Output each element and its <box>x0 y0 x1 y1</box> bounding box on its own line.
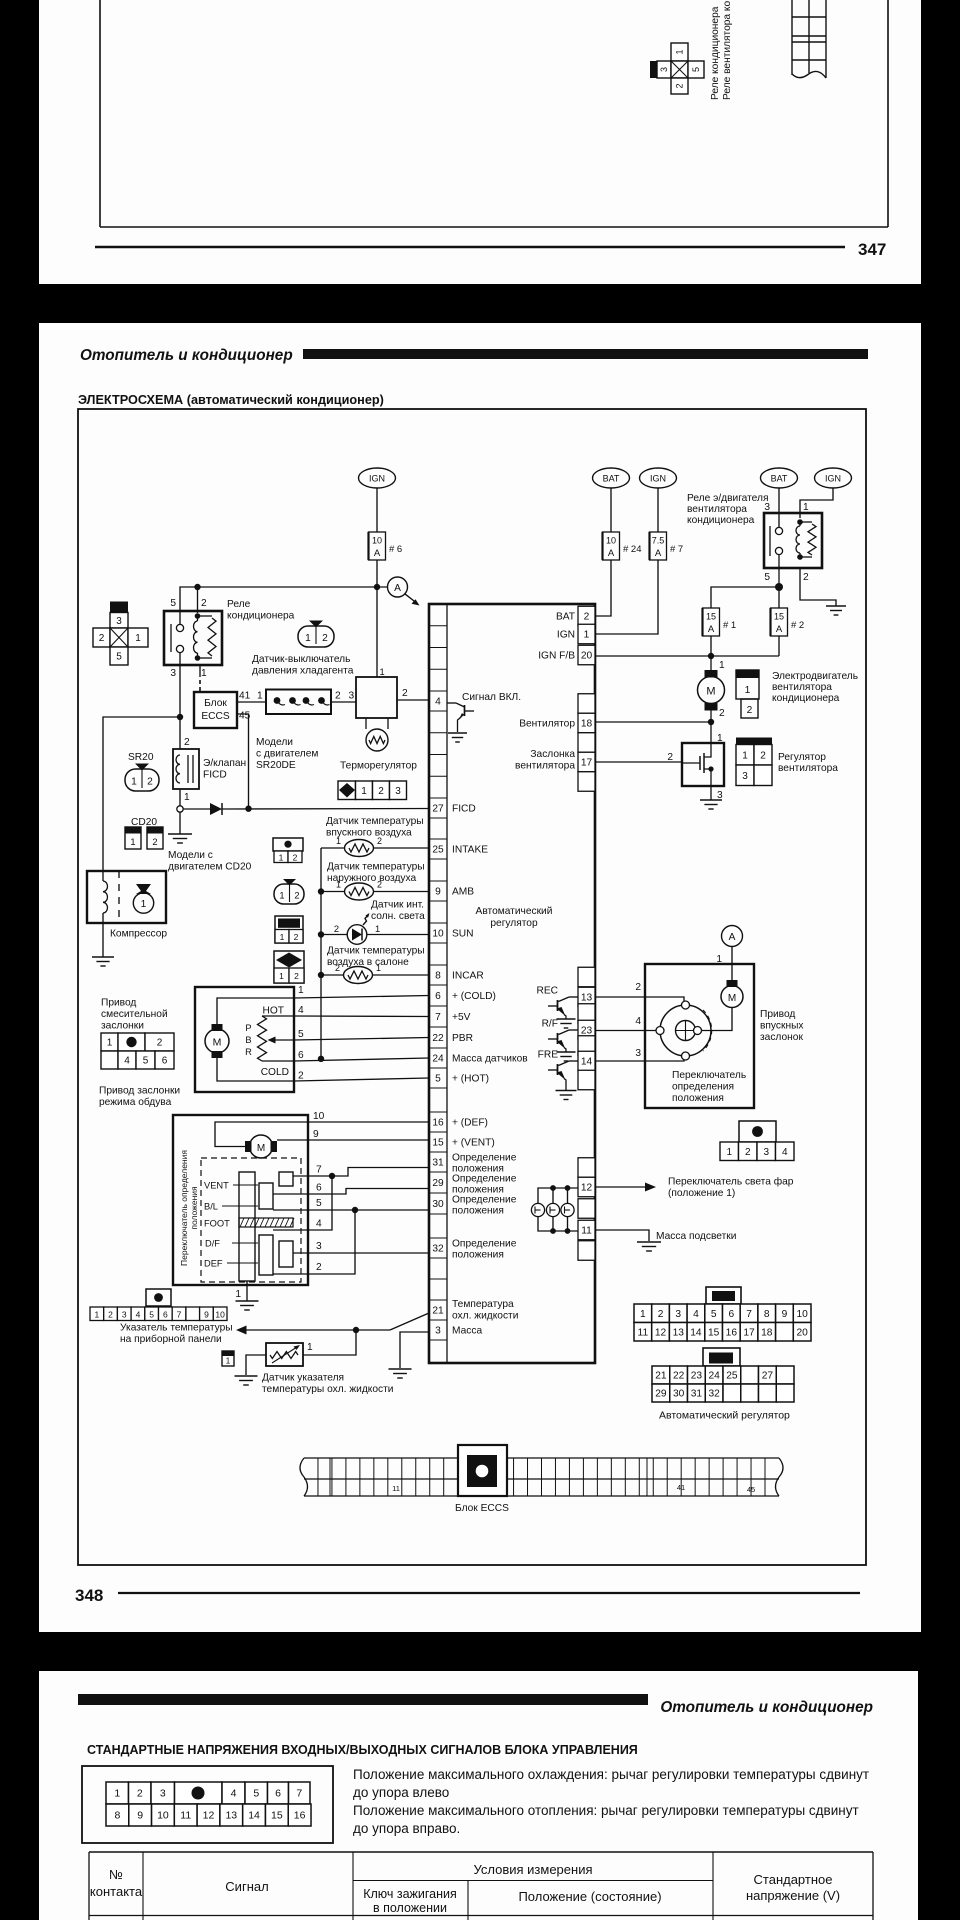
svg-text:14: 14 <box>690 1327 702 1338</box>
svg-text:FICD: FICD <box>452 804 476 815</box>
svg-text:двигателем CD20: двигателем CD20 <box>168 862 252 873</box>
connector intake actuator <box>720 1121 794 1161</box>
svg-text:вентилятора: вентилятора <box>772 682 832 693</box>
label Э/клапан FICD <box>203 758 246 781</box>
svg-text:# 7: # 7 <box>670 544 683 555</box>
control unit right pin cells <box>578 606 595 1260</box>
svg-text:вентилятора: вентилятора <box>778 763 838 774</box>
svg-text:# 2: # 2 <box>791 620 804 631</box>
label Реле э/двигателя вентилятора кондиционера <box>687 493 768 526</box>
label Реле кондиционера <box>227 599 295 622</box>
svg-text:IGN: IGN <box>557 630 575 641</box>
svg-text:2: 2 <box>402 688 408 699</box>
svg-text:R/F: R/F <box>542 1019 558 1030</box>
svg-text:Сигнал ВКЛ.: Сигнал ВКЛ. <box>462 692 521 703</box>
ground R/F transistor <box>557 1052 576 1061</box>
svg-text:2: 2 <box>745 1147 751 1158</box>
connector grid 2 pins 21-32 <box>652 1366 794 1402</box>
svg-text:2: 2 <box>377 836 382 846</box>
svg-text:23: 23 <box>691 1371 703 1382</box>
svg-text:7: 7 <box>316 1165 322 1176</box>
svg-text:9: 9 <box>313 1129 319 1140</box>
connector oval ambient sensor <box>274 879 304 904</box>
svg-text:до упора влево: до упора влево <box>353 1785 449 1800</box>
svg-text:5: 5 <box>691 67 701 72</box>
svg-text:1: 1 <box>279 852 284 862</box>
svg-text:1: 1 <box>226 1357 231 1366</box>
wire pin 13 REC to rotary top <box>595 982 684 1001</box>
intake door actuator M5 box <box>645 964 754 1108</box>
svg-text:1: 1 <box>184 792 190 803</box>
page 349 header Отопитель и кондиционер <box>660 1699 873 1716</box>
wire sun sensor to bus <box>321 934 347 936</box>
wire node to diode <box>183 808 210 810</box>
svg-text:10: 10 <box>157 1810 169 1822</box>
wire IGN to fan relay pin 1 <box>800 488 833 518</box>
svg-text:Масса: Масса <box>452 1326 482 1337</box>
wire IGN to fuse 6 <box>376 488 378 532</box>
svg-text:9: 9 <box>204 1309 209 1319</box>
svg-text:348: 348 <box>75 1586 103 1605</box>
wire fuse 6 to junction <box>376 560 378 587</box>
svg-text:41: 41 <box>239 691 251 702</box>
ground illumination <box>637 1242 661 1251</box>
svg-text:Реле вентилятора ко: Реле вентилятора ко <box>722 1 733 100</box>
svg-text:положения: положения <box>672 1093 724 1104</box>
svg-text:32: 32 <box>708 1389 720 1400</box>
svg-text:1: 1 <box>726 1147 732 1158</box>
svg-text:+ (HOT): + (HOT) <box>452 1074 489 1085</box>
thermoregulator TR1 box <box>356 677 397 751</box>
svg-text:солн. света: солн. света <box>371 911 425 922</box>
page 349 white sheet <box>39 1671 918 1920</box>
label Привод заслонки режима обдува <box>99 1086 180 1109</box>
svg-text:29: 29 <box>655 1389 667 1400</box>
svg-text:2: 2 <box>294 932 299 942</box>
wire PBR pin 5 to PBR pin 22 <box>294 1038 429 1041</box>
node open circle CD20 branch <box>177 806 183 812</box>
svg-text:2: 2 <box>294 891 299 901</box>
svg-text:HOT: HOT <box>262 1006 284 1017</box>
svg-text:7: 7 <box>746 1309 752 1320</box>
connector pins CD20 <box>125 827 163 849</box>
wire BAT to fuse 24 <box>610 488 612 532</box>
fuse 7.5A #7 <box>650 532 684 560</box>
svg-text:9: 9 <box>435 887 441 898</box>
svg-text:Реле кондиционера: Реле кондиционера <box>710 6 721 100</box>
in-car air temp sensor R3 <box>335 963 381 984</box>
label Компрессор <box>110 929 167 940</box>
svg-text:1: 1 <box>298 985 304 996</box>
indicator lamps block pins 12 11 <box>531 1185 578 1234</box>
dash panel gauge connector box <box>146 1289 171 1306</box>
svg-text:22: 22 <box>673 1371 685 1382</box>
svg-text:B/L: B/L <box>204 1202 218 1212</box>
svg-text:1: 1 <box>141 899 147 910</box>
wire intake sensor to sensor bus <box>321 847 345 849</box>
page number 347 <box>858 240 886 259</box>
svg-text:16: 16 <box>726 1327 738 1338</box>
label Блок ECCS <box>455 1503 509 1514</box>
svg-text:1: 1 <box>640 1309 646 1320</box>
svg-text:REC: REC <box>536 986 558 997</box>
svg-text:8: 8 <box>435 971 441 982</box>
svg-text:A: A <box>729 932 736 943</box>
wire IGN F/B bus pin 20 <box>595 655 779 657</box>
connector grid 1 tab <box>706 1287 741 1304</box>
connector pin coolant sender <box>222 1351 234 1366</box>
svg-text:Привод: Привод <box>760 1009 795 1020</box>
FICD valve pin labels <box>184 737 190 803</box>
svg-text:A: A <box>708 624 715 635</box>
svg-text:1: 1 <box>803 502 809 513</box>
svg-text:11: 11 <box>180 1810 191 1822</box>
svg-text:1: 1 <box>280 932 285 942</box>
relay K1 pin labels <box>170 598 207 679</box>
svg-text:21: 21 <box>655 1371 667 1382</box>
svg-text:2: 2 <box>658 1309 664 1320</box>
signal-on transistor Q2 Сигнал ВКЛ. <box>447 692 521 732</box>
svg-text:Указатель температуры: Указатель температуры <box>120 1323 233 1334</box>
svg-text:15: 15 <box>271 1810 283 1822</box>
compressor M2 Компрессор <box>87 871 166 923</box>
svg-text:17: 17 <box>581 758 593 769</box>
label Датчик температуры впускного воздуха <box>326 816 424 839</box>
label Регулятор вентилятора <box>778 752 838 774</box>
svg-text:18: 18 <box>761 1327 773 1338</box>
wire sender to junction <box>303 1330 356 1355</box>
svg-text:Ключ зажигания: Ключ зажигания <box>363 1887 457 1901</box>
control unit left pin ladder <box>429 604 447 1363</box>
power source oval BAT (fan relay) <box>761 468 798 488</box>
label Масса подсветки <box>656 1231 736 1242</box>
wire fuse 2 down <box>778 636 780 656</box>
svg-text:15: 15 <box>708 1327 720 1338</box>
power source oval IGN #6 <box>359 468 396 488</box>
svg-text:1: 1 <box>131 777 137 788</box>
svg-text:охл. жидкости: охл. жидкости <box>452 1311 518 1322</box>
svg-text:1: 1 <box>307 1342 313 1353</box>
svg-text:FOOT: FOOT <box>204 1219 230 1229</box>
svg-text:29: 29 <box>432 1178 444 1189</box>
mode actuator dashed switch box <box>201 1158 301 1282</box>
wire incar sensor to pin 8 <box>373 974 430 976</box>
svg-text:A: A <box>776 624 783 635</box>
ECCS strip centre box <box>458 1445 507 1496</box>
svg-text:10: 10 <box>313 1111 325 1122</box>
svg-text:Датчик температуры: Датчик температуры <box>327 862 425 873</box>
svg-text:Определение: Определение <box>452 1153 517 1164</box>
svg-text:1: 1 <box>745 685 751 696</box>
wire rows 7-4 vertical <box>273 1176 332 1230</box>
connector sun sensor <box>275 916 303 943</box>
svg-text:SUN: SUN <box>452 929 474 940</box>
junction dot fan motor feed <box>708 653 714 659</box>
svg-text:+ (DEF): + (DEF) <box>452 1118 488 1129</box>
wire relay K1 pin 3 down <box>179 653 181 749</box>
svg-text:17: 17 <box>743 1327 755 1338</box>
svg-text:AMB: AMB <box>452 887 474 898</box>
junction dot coolant sender <box>353 1327 359 1333</box>
svg-text:Определение: Определение <box>452 1195 517 1206</box>
svg-text:24: 24 <box>432 1054 444 1065</box>
svg-text:2: 2 <box>99 633 105 644</box>
ground CD20 node <box>168 834 192 843</box>
wire fan relay pin 2 to ground <box>800 568 836 606</box>
svg-text:1: 1 <box>336 836 341 846</box>
control unit title <box>476 906 553 929</box>
svg-text:2: 2 <box>152 837 157 847</box>
svg-text:с двигателем: с двигателем <box>256 749 318 760</box>
label Переключатель света фар (положение 1) <box>668 1176 794 1200</box>
wire pin 3 Масса to ground <box>400 1332 429 1368</box>
connector X-symbol (relay pinout, rotated) <box>650 43 704 94</box>
svg-text:23: 23 <box>581 1026 593 1037</box>
label Автоматический регулятор (connector) <box>659 1410 790 1422</box>
ground REC transistor <box>557 1019 576 1028</box>
diode D1 <box>210 803 222 815</box>
ECCS pin 41 wire to pressure switch <box>237 691 266 703</box>
svg-text:Отопитель и кондиционер: Отопитель и кондиционер <box>660 1699 873 1716</box>
svg-text:2: 2 <box>293 852 298 862</box>
svg-text:4: 4 <box>635 1016 641 1027</box>
svg-text:Определение: Определение <box>452 1239 517 1250</box>
wire PBR pin 1 to +COLD pin 6 <box>294 996 429 999</box>
label Датчик температуры воздуха в салоне <box>327 946 425 969</box>
svg-text:1: 1 <box>584 630 590 641</box>
svg-text:1: 1 <box>235 1289 241 1300</box>
svg-text:Отопитель и кондиционер: Отопитель и кондиционер <box>80 347 293 364</box>
wire to pin 21 Температура охл. жидкости <box>390 1313 429 1330</box>
svg-text:2: 2 <box>108 1309 113 1319</box>
svg-text:INCAR: INCAR <box>452 971 484 982</box>
svg-text:2: 2 <box>760 750 766 761</box>
svg-text:27: 27 <box>432 804 444 815</box>
connector thermoregulator 1 2 3 <box>338 781 407 800</box>
svg-text:Автоматический регулятор: Автоматический регулятор <box>659 1410 790 1422</box>
wire relay K1 pin 5 up <box>180 587 181 624</box>
svg-text:в положении: в положении <box>373 1901 447 1915</box>
svg-text:12: 12 <box>655 1327 667 1338</box>
svg-text:3: 3 <box>170 668 176 679</box>
wire fuse 24 to control-unit pin 2 <box>595 560 611 616</box>
svg-text:заслонки: заслонки <box>101 1021 144 1032</box>
svg-text:2: 2 <box>298 1071 304 1082</box>
label CD20 <box>131 817 157 828</box>
svg-text:2: 2 <box>747 705 753 716</box>
svg-text:+5V: +5V <box>452 1012 471 1023</box>
svg-text:M: M <box>257 1143 265 1154</box>
svg-text:5: 5 <box>253 1788 259 1800</box>
svg-text:4: 4 <box>693 1309 699 1320</box>
svg-text:Датчик-выключатель: Датчик-выключатель <box>252 654 350 665</box>
svg-text:Привод заслонки: Привод заслонки <box>99 1086 180 1097</box>
svg-text:режима обдува: режима обдува <box>99 1096 172 1108</box>
svg-text:2: 2 <box>675 83 685 88</box>
wire junction to fuse 15A #2 <box>778 587 780 608</box>
svg-text:2: 2 <box>378 786 384 797</box>
svg-text:3: 3 <box>742 771 748 782</box>
svg-text:30: 30 <box>432 1199 444 1210</box>
svg-text:1: 1 <box>675 49 685 54</box>
svg-text:SR20DE: SR20DE <box>256 760 296 771</box>
svg-text:27: 27 <box>762 1371 774 1382</box>
svg-text:определения: определения <box>672 1082 734 1093</box>
junction dot incar bus <box>318 972 324 978</box>
svg-text:30: 30 <box>673 1389 685 1400</box>
wire FICD valve to node <box>179 789 181 806</box>
svg-text:IGN: IGN <box>650 474 666 484</box>
label Реле кондиционера / Реле вентилятора (rotated) <box>710 1 733 100</box>
svg-text:1: 1 <box>201 668 207 679</box>
wire sender to ground <box>246 1355 266 1375</box>
wire pin 12 headlamp switch arrow <box>595 1183 656 1192</box>
svg-text:6: 6 <box>316 1183 322 1194</box>
page 349 header bar <box>78 1694 648 1705</box>
connector incar sensor diamond <box>274 951 304 983</box>
svg-text:кондиционера: кондиционера <box>772 693 840 704</box>
svg-text:A: A <box>394 583 401 594</box>
svg-text:Блок ECCS: Блок ECCS <box>455 1503 509 1514</box>
svg-text:Автоматический: Автоматический <box>476 906 553 917</box>
page 347 content frame border <box>100 0 888 227</box>
svg-text:BAT: BAT <box>603 474 620 484</box>
wire IGN to fuse 7 <box>657 488 659 532</box>
svg-text:+ (VENT): + (VENT) <box>452 1138 495 1149</box>
svg-text:4: 4 <box>782 1147 788 1158</box>
svg-text:1: 1 <box>114 1788 120 1800</box>
svg-text:25: 25 <box>726 1371 738 1382</box>
svg-text:положения: положения <box>452 1250 504 1261</box>
svg-text:Модели с: Модели с <box>168 850 213 861</box>
mode switch common bar <box>239 1172 255 1281</box>
svg-text:12: 12 <box>581 1183 593 1194</box>
svg-text:2: 2 <box>377 880 382 890</box>
svg-text:10: 10 <box>796 1309 808 1320</box>
svg-text:15: 15 <box>774 612 784 622</box>
fan control transistor module Q1 <box>682 743 724 786</box>
header Отопитель и кондиционер <box>80 347 293 364</box>
svg-text:10: 10 <box>606 536 616 546</box>
page number 347 rule <box>95 246 845 248</box>
fuse 10A #24 <box>603 532 642 560</box>
svg-text:Регулятор: Регулятор <box>778 752 826 763</box>
svg-text:Терморегулятор: Терморегулятор <box>340 761 417 772</box>
wire pin 17 Заслонка вентилятора to transistor gate <box>595 752 682 763</box>
svg-text:Переключатель: Переключатель <box>672 1070 746 1081</box>
svg-text:D/F: D/F <box>205 1239 220 1249</box>
junction dot ambient bus <box>318 888 324 894</box>
svg-text:PBR: PBR <box>452 1033 473 1044</box>
svg-text:1: 1 <box>376 963 381 973</box>
svg-text:10: 10 <box>432 929 444 940</box>
svg-text:Переключатель света фар: Переключатель света фар <box>668 1176 794 1188</box>
svg-text:положения: положения <box>189 1186 199 1230</box>
mode actuator motor M <box>245 1135 277 1158</box>
FICD solenoid valve Y1 Э/клапан FICD <box>173 749 199 789</box>
svg-text:1: 1 <box>94 1309 99 1319</box>
svg-text:3: 3 <box>316 1241 322 1252</box>
svg-text:контакта: контакта <box>90 1884 143 1899</box>
svg-text:20: 20 <box>796 1327 808 1338</box>
power source oval IGN #7 <box>640 468 677 488</box>
wire relay K1 pin 1 dashed to ECCS <box>199 665 201 691</box>
svg-text:21: 21 <box>432 1306 444 1317</box>
wire ECCS pin 45 to FICD wire <box>237 711 251 809</box>
svg-text:3: 3 <box>122 1309 127 1319</box>
svg-text:1: 1 <box>742 750 748 761</box>
svg-text:13: 13 <box>225 1810 237 1822</box>
svg-text:3: 3 <box>635 1048 641 1059</box>
wire pin 11 to illumination ground <box>595 1230 649 1241</box>
wire sun sensor to pin 10 <box>367 934 429 936</box>
svg-text:15: 15 <box>706 612 716 622</box>
svg-text:1: 1 <box>135 633 141 644</box>
svg-text:1: 1 <box>305 633 311 644</box>
svg-text:12: 12 <box>203 1810 215 1822</box>
svg-text:Положение максимального отопле: Положение максимального отопления: рычаг… <box>353 1803 859 1818</box>
svg-text:+ (COLD): + (COLD) <box>452 991 496 1002</box>
svg-text:6: 6 <box>435 991 441 1002</box>
svg-text:2: 2 <box>635 982 641 993</box>
control unit connector pinout box <box>82 1766 333 1843</box>
svg-text:4: 4 <box>136 1309 141 1319</box>
relay K2 fan motor relay <box>764 513 822 568</box>
wire pin 18 Вентилятор <box>595 721 711 723</box>
title ЭЛЕКТРОСХЕМА (автоматический кондиционер) <box>78 393 384 407</box>
header bar <box>303 349 868 359</box>
svg-text:1: 1 <box>279 971 284 981</box>
svg-text:Переключатель определения: Переключатель определения <box>179 1150 189 1266</box>
svg-text:смесительной: смесительной <box>101 1009 168 1020</box>
connector intake sensor <box>273 838 303 863</box>
svg-text:3: 3 <box>763 1147 769 1158</box>
svg-text:5: 5 <box>711 1309 717 1320</box>
wire relay K1 pin 2 up <box>194 584 200 613</box>
svg-text:кондиционера: кондиционера <box>227 611 295 622</box>
svg-text:Вентилятор: Вентилятор <box>519 719 575 730</box>
svg-text:Реле: Реле <box>227 599 251 610</box>
wire PBR pin 4 to +5V pin 7 <box>294 1015 429 1018</box>
svg-text:4: 4 <box>124 1056 130 1067</box>
svg-text:2: 2 <box>294 971 299 981</box>
label Модели с двигателем CD20 <box>168 850 252 873</box>
svg-text:25: 25 <box>432 845 444 856</box>
svg-text:Стандартное: Стандартное <box>754 1872 833 1887</box>
ground signal-on transistor <box>448 733 467 742</box>
wire branch to compressor <box>103 717 180 871</box>
svg-text:4: 4 <box>316 1219 322 1230</box>
svg-text:BAT: BAT <box>556 612 575 623</box>
page 347 white sheet <box>39 0 921 284</box>
svg-text:Масса датчиков: Масса датчиков <box>452 1054 528 1065</box>
transistor Q4 R/F output <box>542 1019 578 1053</box>
svg-text:P: P <box>245 1023 251 1033</box>
wire pin 14 FRE to rotary bottom <box>595 1048 684 1061</box>
control unit pin name labels right side <box>515 612 575 772</box>
wire A to intake motor <box>716 947 732 981</box>
svg-text:1: 1 <box>375 924 380 934</box>
svg-text:18: 18 <box>581 719 593 730</box>
svg-text:5: 5 <box>143 1056 149 1067</box>
svg-text:# 6: # 6 <box>389 544 402 555</box>
svg-text:DEF: DEF <box>204 1259 223 1269</box>
svg-text:3: 3 <box>435 1326 441 1337</box>
wire junction to fuse 15A #1 <box>711 587 779 608</box>
svg-text:впускных: впускных <box>760 1021 804 1032</box>
wire diode to FICD pin 27 <box>222 808 429 811</box>
svg-text:7.5: 7.5 <box>652 536 665 546</box>
